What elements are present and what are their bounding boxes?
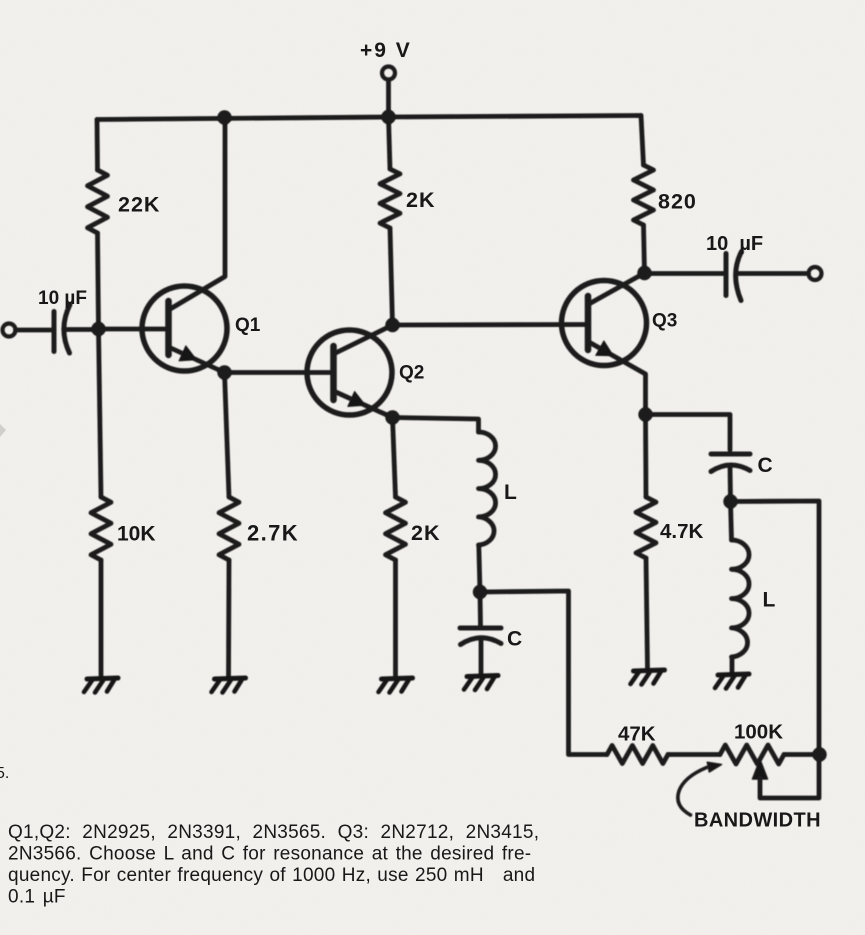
inductor L1: [479, 432, 496, 545]
node C4-L2 tank junction: [723, 494, 737, 508]
svg-text:820: 820: [658, 190, 697, 214]
capacitor C3 10uF left plate: [724, 254, 729, 296]
wire tank node to bottom run: [480, 591, 607, 755]
node Q2 collector junction: [385, 318, 399, 332]
wire Q2 emitter node down to 2K: [393, 418, 396, 498]
bandwidth callout arrow: [678, 768, 707, 816]
svg-text:Q1,Q2: 2N2925, 2N3391, 2N3565.: Q1,Q2: 2N2925, 2N3391, 2N3565. Q3: 2N271…: [8, 822, 539, 843]
svg-text:2.7K: 2.7K: [247, 521, 299, 546]
transistor Q2 emitter arrow: [348, 391, 366, 406]
wire +9V stem: [386, 80, 391, 117]
svg-text:L: L: [763, 589, 776, 612]
wire 2K to ground: [393, 560, 398, 677]
wire Q2 emitter node to L1: [393, 418, 479, 433]
wire 9V node to 2K: [389, 117, 391, 169]
resistor R1 22K: [88, 170, 108, 233]
left margin scan mark 1: [0, 424, 6, 437]
wire Q3 emitter node down to 4.7K: [643, 415, 648, 498]
resistor R6 47K: [607, 746, 668, 764]
resistor R4 2K: [380, 169, 400, 228]
wire Q1 emitter node down to 2.7K: [225, 373, 230, 498]
bandwidth arrowhead: [707, 762, 721, 772]
ground G6: [715, 674, 749, 689]
wire C1 to input node: [66, 327, 99, 332]
svg-text:10K: 10K: [117, 523, 156, 546]
transistor Q3 base bar: [585, 296, 592, 350]
svg-text:2N3566. Choose L and C for res: 2N3566. Choose L and C for resonance at …: [8, 844, 531, 865]
resistor R3 2.7K: [219, 497, 239, 560]
capacitor C2 top plate: [460, 626, 501, 631]
terminal input: [3, 324, 16, 337]
resistor R9 4.7K: [636, 497, 656, 558]
svg-text:2K: 2K: [406, 188, 435, 212]
wire 10K to ground: [99, 560, 104, 677]
wire rail drop to 820: [641, 116, 644, 166]
capacitor C2 curved plate: [461, 638, 502, 645]
wire right tank node to L2: [731, 502, 732, 541]
svg-text:C: C: [758, 454, 773, 477]
wire input node to 10K: [99, 329, 102, 497]
wire C2 to ground: [479, 641, 484, 675]
ground G3: [379, 678, 413, 693]
node input junction: [91, 322, 105, 336]
wire C3 to output terminal: [739, 271, 809, 276]
svg-text:+9 V: +9 V: [360, 39, 412, 62]
wire 100K to right node: [784, 752, 820, 757]
svg-text:47K: 47K: [618, 723, 656, 746]
wire Q3 collector node to C3: [645, 271, 727, 276]
transistor Q1 collector: [169, 118, 226, 311]
wire Q1 emitter to Q2 base: [225, 370, 334, 375]
wire tank node to C2: [478, 592, 483, 626]
wire L2 to ground: [730, 657, 735, 673]
svg-text:0.1 µF: 0.1 µF: [8, 887, 66, 908]
node rail-Q1 collector: [217, 110, 231, 124]
svg-text:4.7K: 4.7K: [660, 520, 703, 543]
wire right tank node to bottom node: [731, 501, 820, 755]
terminal output: [809, 267, 822, 280]
transistor Q3 emitter arrow: [596, 341, 614, 356]
ground G4: [464, 676, 498, 691]
terminal +9V: [382, 67, 395, 80]
resistor R2 10K: [91, 497, 111, 560]
wire L1 to tank node: [479, 545, 480, 592]
transistor Q3 circle: [562, 281, 647, 366]
capacitor C4 top plate: [711, 452, 750, 457]
svg-text:C: C: [507, 628, 522, 651]
svg-text:quency. For center frequency o: quency. For center frequency of 1000 Hz,…: [8, 865, 535, 886]
svg-text:22K: 22K: [118, 193, 160, 217]
wire Q2 collector node to Q3 base: [393, 322, 589, 327]
capacitor C3 10uF curved plate: [736, 252, 742, 301]
wire Q1 base: [99, 327, 169, 332]
wire 2.7K to ground: [226, 560, 231, 677]
capacitor C1 10uF left plate: [52, 312, 57, 352]
wire left drop from rail: [95, 120, 100, 171]
node Q3 emitter junction: [638, 407, 652, 421]
ground G2: [212, 678, 246, 693]
ground G5: [631, 670, 665, 685]
transistor Q2 base bar: [330, 346, 337, 400]
transistor Q1 base bar: [165, 301, 172, 355]
transistor Q2 circle: [307, 330, 392, 415]
svg-text:Q3: Q3: [652, 311, 677, 332]
wire 4.7K to ground: [646, 558, 648, 669]
wire 22K to input node: [98, 233, 99, 329]
transistor Q3 collector: [588, 273, 645, 305]
wire input terminal to C1: [16, 328, 55, 333]
transistor Q2 emitter: [334, 391, 393, 418]
wire 47K to 100K: [668, 752, 720, 757]
transistor Q1 emitter: [169, 347, 225, 373]
potentiometer wiper arrow: [753, 760, 768, 780]
node Q2 emitter junction: [385, 410, 399, 424]
wire C4 to right tank node: [728, 466, 733, 502]
node Q1 emitter junction: [217, 365, 231, 379]
transistor Q3 emitter: [588, 342, 646, 415]
svg-text:5.: 5.: [0, 765, 9, 782]
svg-text:10 µF: 10 µF: [706, 233, 763, 255]
svg-text:100K: 100K: [734, 721, 783, 744]
svg-text:10 µF: 10 µF: [38, 288, 87, 309]
transistor Q1 emitter arrow: [179, 346, 197, 361]
resistor R5 2K: [386, 497, 406, 560]
svg-text:Q1: Q1: [235, 315, 261, 336]
wire 2K to Q2 collector node: [390, 228, 393, 325]
node bottom right junction: [812, 747, 826, 761]
svg-text:2K: 2K: [411, 521, 440, 545]
transistor Q2 collector: [334, 325, 393, 354]
transistor Q1 circle: [142, 286, 227, 371]
wire Q3 emitter node to C4: [646, 415, 731, 451]
ground G1: [84, 678, 118, 693]
svg-text:Q2: Q2: [399, 363, 424, 384]
capacitor C1 10uF curved plate: [64, 305, 70, 354]
node L1-C2 tank junction: [473, 585, 487, 599]
resistor R8 820: [634, 165, 654, 225]
node Q3 collector junction: [637, 266, 651, 280]
inductor L2: [732, 540, 750, 657]
wire wiper to right node: [760, 755, 819, 799]
node +9V junction: [381, 110, 395, 124]
svg-text:L: L: [504, 481, 517, 504]
potentiometer R7 100K: [720, 745, 784, 764]
wire top supply rail: [97, 116, 641, 120]
wire 820 to Q3 collector node: [644, 225, 645, 273]
capacitor C4 curved plate: [711, 465, 750, 472]
svg-text:BANDWIDTH: BANDWIDTH: [694, 810, 821, 832]
